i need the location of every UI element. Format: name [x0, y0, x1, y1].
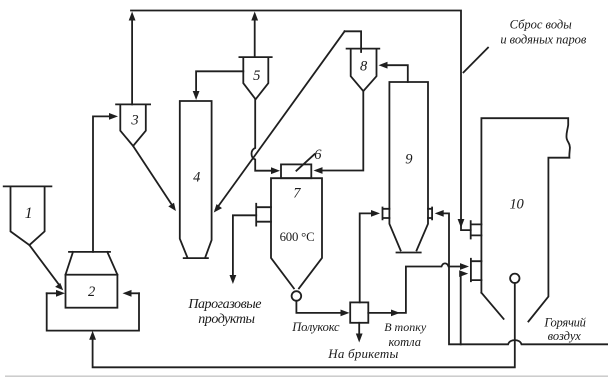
wire splitter to furnace9 left port — [360, 210, 380, 302]
svg-text:Парогазовые: Парогазовые — [187, 297, 261, 312]
svg-text:продукты: продукты — [198, 312, 254, 327]
mixer 2 body — [66, 275, 118, 308]
boiler lower port — [471, 259, 482, 281]
wire diagonal to dryer4 from cyclone8 riser corner — [214, 31, 361, 212]
svg-text:Горячий: Горячий — [543, 316, 586, 330]
label 6 leader — [296, 154, 314, 171]
svg-text:На брикеты: На брикеты — [327, 346, 398, 361]
svg-text:4: 4 — [193, 170, 200, 186]
wire splitter to boiler furnace port with hop — [368, 263, 469, 316]
hot air main wire with hop — [435, 210, 608, 344]
boiler drain circle — [510, 274, 519, 283]
svg-text:воздух: воздух — [548, 329, 582, 343]
top header wire — [131, 11, 471, 231]
wire cyclone5 to dryer4 top — [193, 71, 244, 100]
svg-text:1: 1 — [25, 205, 33, 222]
feeder 6 — [281, 164, 311, 178]
svg-text:Сброс воды: Сброс воды — [510, 18, 573, 32]
splitter box — [350, 302, 368, 322]
svg-text:600 °С: 600 °С — [280, 230, 315, 244]
wire retort7 port to vapor outlet — [230, 215, 257, 284]
hot air branch wire to boiler port — [459, 270, 468, 344]
wire retort7 circle to splitter — [296, 301, 349, 317]
svg-text:5: 5 — [253, 68, 260, 84]
wire cyclone5 riser to header — [251, 12, 258, 58]
svg-text:7: 7 — [293, 186, 301, 202]
retort 7 left port — [256, 204, 271, 226]
svg-text:и водяных паров: и водяных паров — [500, 33, 586, 47]
retort 7 drain circle — [292, 291, 302, 301]
dryer 4 — [180, 101, 212, 258]
retort 7 — [271, 178, 322, 288]
cyclone 5 — [239, 57, 271, 99]
wire cyclone8 drain to feeder6 — [314, 91, 364, 174]
svg-text:8: 8 — [360, 59, 368, 75]
mixer 2 dome — [66, 252, 118, 275]
boiler drain recycle wire — [89, 283, 515, 367]
svg-text:В топку: В топку — [384, 320, 427, 334]
svg-text:6: 6 — [314, 147, 322, 163]
svg-text:2: 2 — [88, 284, 95, 300]
callout leader line — [464, 48, 489, 73]
wire splitter to briquettes — [356, 323, 363, 343]
wire cyclone3 to dryer4 — [133, 146, 176, 211]
svg-text:10: 10 — [510, 196, 525, 212]
furnace 9 — [389, 82, 428, 253]
furnace 9 right port — [428, 208, 432, 220]
svg-text:Полукокс: Полукокс — [291, 320, 340, 334]
wire furnace9 top to cyclone8 — [379, 62, 408, 82]
wire mixer2 to cyclone3 — [93, 113, 118, 252]
furnace 9 left port — [383, 208, 390, 220]
svg-text:3: 3 — [130, 113, 138, 129]
wire hopper1 to mixer2 — [29, 245, 63, 290]
cyclone 8 — [347, 49, 380, 92]
mixer 2 outer casing — [47, 290, 139, 331]
svg-text:9: 9 — [405, 152, 413, 168]
boiler 10 outline — [481, 118, 570, 321]
wire cyclone5 drain to feeder6 with hop — [252, 99, 280, 174]
page rule line — [5, 375, 608, 377]
hopper 1 — [4, 186, 52, 245]
boiler upper port — [471, 221, 482, 238]
cyclone 3 — [116, 104, 150, 146]
wire cyclone3 riser to header — [129, 12, 136, 105]
